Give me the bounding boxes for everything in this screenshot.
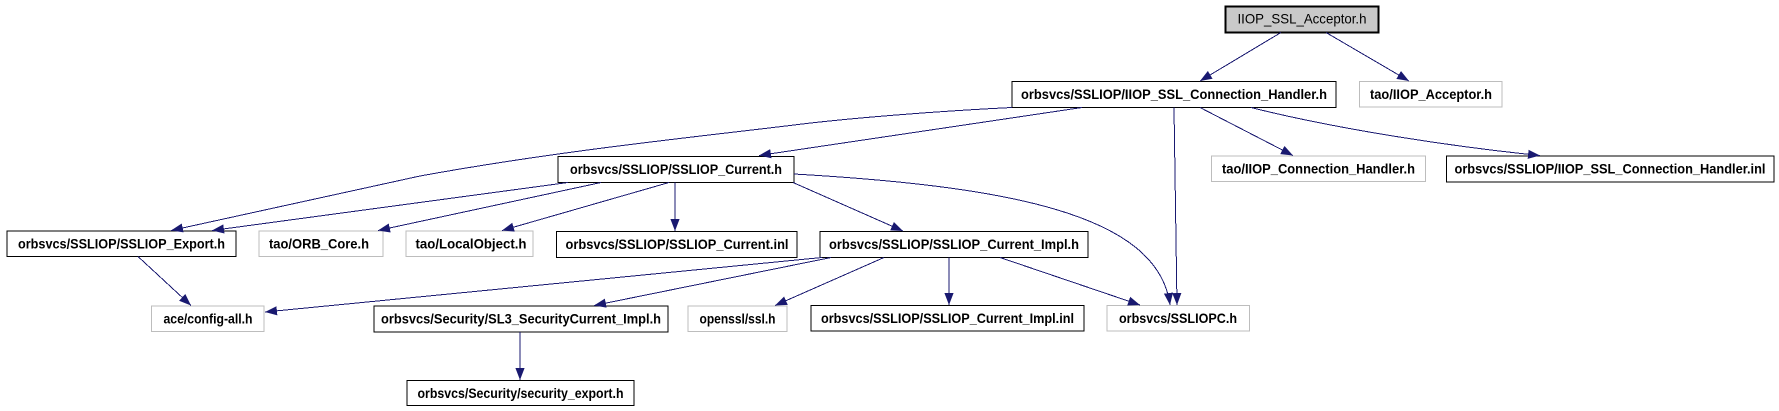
edge SL3_SecurityCurrent_Impl.h -> security_export.h — [519, 332, 521, 380]
node orbsvcs/SSLIOPC.h — [1107, 306, 1250, 332]
edge SSLIOP_Current_Impl.h -> orbsvcs/SSLIOPC.h — [1000, 258, 1140, 306]
svg-text:tao/LocalObject.h: tao/LocalObject.h — [416, 237, 527, 252]
node tao/LocalObject.h — [406, 231, 533, 257]
node orbsvcs/SSLIOP/SSLIOP_Current.inl — [557, 232, 798, 258]
node orbsvcs/SSLIOP/SSLIOP_Export.h — [7, 231, 236, 257]
svg-text:orbsvcs/SSLIOP/SSLIOP_Export.h: orbsvcs/SSLIOP/SSLIOP_Export.h — [18, 237, 225, 252]
node orbsvcs/SSLIOP/SSLIOP_Current_Impl.inl — [811, 306, 1084, 332]
edge SSLIOP_Current.h -> SSLIOP_Current_Impl.h — [793, 183, 903, 232]
svg-text:ace/config-all.h: ace/config-all.h — [164, 312, 253, 327]
edge SSLIOP_Current.h -> orbsvcs/SSLIOPC.h — [794, 174, 1170, 305]
node orbsvcs/Security/SL3_SecurityCurrent_Impl.h — [374, 306, 668, 332]
svg-text:orbsvcs/SSLIOP/IIOP_SSL_Connec: orbsvcs/SSLIOP/IIOP_SSL_Connection_Handl… — [1021, 87, 1327, 102]
edge IIOP_SSL_Connection_Handler.h -> orbsvcs/SSLIOPC.h — [1174, 108, 1177, 306]
svg-text:orbsvcs/SSLIOPC.h: orbsvcs/SSLIOPC.h — [1119, 311, 1237, 326]
edge SSLIOP_Current_Impl.h -> ace/config-all.h — [265, 258, 822, 313]
node ace/config-all.h — [152, 306, 265, 332]
edge SSLIOP_Current_Impl.h -> SSLIOP_Current_Impl.inl — [948, 258, 950, 306]
svg-text:orbsvcs/SSLIOP/SSLIOP_Current_: orbsvcs/SSLIOP/SSLIOP_Current_Impl.inl — [821, 311, 1074, 326]
edge IIOP_SSL_Connection_Handler.h -> SSLIOP_Current.h — [759, 108, 1082, 156]
svg-text:tao/IIOP_Acceptor.h: tao/IIOP_Acceptor.h — [1370, 87, 1492, 102]
node orbsvcs/SSLIOP/IIOP_SSL_Connection_Handler.h — [1012, 82, 1336, 108]
edge IIOP_SSL_Connection_Handler.h -> SSLIOP_Export.h — [171, 108, 1012, 231]
svg-text:IIOP_SSL_Acceptor.h: IIOP_SSL_Acceptor.h — [1238, 11, 1367, 27]
edge SSLIOP_Current.h -> SSLIOP_Current.inl — [674, 183, 676, 232]
edge IIOP_SSL_Acceptor.h -> orbsvcs/SSLIOP/IIOP_SSL_Connection_Handler.h — [1200, 33, 1281, 82]
svg-text:orbsvcs/SSLIOP/SSLIOP_Current.: orbsvcs/SSLIOP/SSLIOP_Current.h — [570, 162, 782, 177]
edge SSLIOP_Current_Impl.h -> openssl/ssl.h — [775, 258, 884, 306]
svg-text:tao/IIOP_Connection_Handler.h: tao/IIOP_Connection_Handler.h — [1222, 162, 1415, 177]
edge SSLIOP_Current.h -> SSLIOP_Export.h — [212, 183, 568, 231]
edge IIOP_SSL_Connection_Handler.h -> IIOP_SSL_Connection_Handler.inl — [1251, 108, 1540, 156]
node orbsvcs/SSLIOP/SSLIOP_Current.h — [558, 157, 794, 183]
node tao/IIOP_Acceptor.h — [1360, 82, 1503, 108]
node orbsvcs/Security/security_export.h — [407, 381, 634, 406]
node orbsvcs/SSLIOP/SSLIOP_Current_Impl.h — [820, 232, 1088, 258]
edge IIOP_SSL_Connection_Handler.h -> tao/IIOP_Connection_Handler.h — [1200, 108, 1293, 156]
svg-text:orbsvcs/Security/security_expo: orbsvcs/Security/security_export.h — [418, 386, 624, 401]
svg-text:orbsvcs/SSLIOP/IIOP_SSL_Connec: orbsvcs/SSLIOP/IIOP_SSL_Connection_Handl… — [1455, 162, 1766, 177]
svg-text:tao/ORB_Core.h: tao/ORB_Core.h — [269, 237, 369, 252]
node tao/IIOP_Connection_Handler.h — [1212, 156, 1426, 182]
node orbsvcs/SSLIOP/IIOP_SSL_Connection_Handler.inl — [1447, 156, 1775, 182]
node tao/ORB_Core.h — [259, 231, 383, 257]
svg-text:orbsvcs/SSLIOP/SSLIOP_Current.: orbsvcs/SSLIOP/SSLIOP_Current.inl — [566, 237, 789, 252]
node IIOP_SSL_Acceptor.h (root) — [1226, 7, 1379, 33]
node openssl/ssl.h — [688, 306, 787, 332]
edge SSLIOP_Export.h -> ace/config-all.h — [138, 257, 191, 306]
edge SSLIOP_Current.h -> tao/ORB_Core.h — [378, 183, 601, 231]
svg-text:orbsvcs/SSLIOP/SSLIOP_Current_: orbsvcs/SSLIOP/SSLIOP_Current_Impl.h — [829, 237, 1079, 252]
edge SSLIOP_Current_Impl.h -> SL3_SecurityCurrent_Impl.h — [594, 258, 831, 306]
edge SSLIOP_Current.h -> tao/LocalObject.h — [502, 183, 669, 231]
edge IIOP_SSL_Acceptor.h -> tao/IIOP_Acceptor.h — [1326, 33, 1409, 82]
svg-text:openssl/ssl.h: openssl/ssl.h — [700, 312, 776, 327]
svg-text:orbsvcs/Security/SL3_SecurityC: orbsvcs/Security/SL3_SecurityCurrent_Imp… — [381, 312, 661, 327]
